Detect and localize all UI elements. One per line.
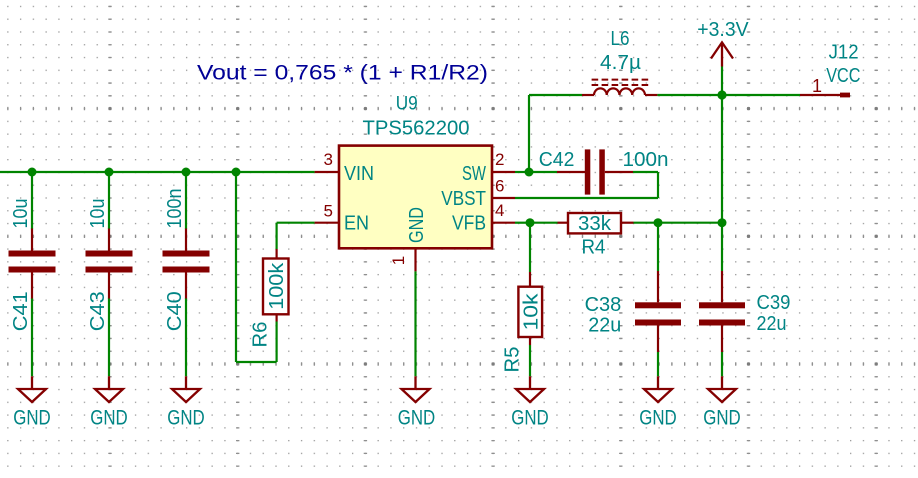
svg-text:R4: R4 — [582, 237, 606, 259]
wire C43 top — [108, 172, 110, 229]
svg-text:C42: C42 — [539, 149, 575, 171]
connector J12 pin 1 — [800, 93, 850, 98]
wire C40 bottom — [185, 298, 187, 376]
wire R5 top — [529, 223, 531, 272]
svg-text:GND: GND — [639, 407, 677, 430]
wire R6 bottom — [276, 322, 278, 363]
pin 4 VFB stub — [493, 222, 516, 224]
svg-text:4: 4 — [495, 201, 504, 220]
pin 2 SW stub — [493, 171, 516, 173]
svg-text:L6: L6 — [611, 28, 630, 50]
svg-text:100n: 100n — [623, 149, 669, 171]
ground symbol at C40 — [172, 376, 200, 402]
resistor R5 — [518, 272, 542, 345]
svg-text:Vout = 0,765 * (1 + R1/R2): Vout = 0,765 * (1 + R1/R2) — [197, 62, 488, 85]
svg-text:VIN: VIN — [344, 162, 374, 185]
junction +3.3V VFB node — [718, 218, 727, 227]
svg-text:22u: 22u — [588, 315, 621, 337]
junction on VIN rail at C41 — [28, 168, 37, 177]
wire C39 top — [721, 223, 723, 271]
pin 3 VIN stub — [315, 171, 339, 173]
svg-text:GND: GND — [167, 407, 205, 430]
svg-text:GND: GND — [405, 207, 428, 243]
junction on VIN rail at C43 — [105, 168, 114, 177]
R6 value label 100k — [266, 262, 288, 310]
junction on VIN rail at EN branch — [232, 168, 241, 177]
wire R5 bottom — [529, 345, 531, 376]
C40 value label 100n — [164, 189, 186, 229]
svg-text:C39: C39 — [757, 292, 791, 314]
pin 5 EN stub — [315, 222, 339, 224]
wire C38 bottom — [657, 352, 659, 376]
svg-text:1: 1 — [812, 76, 822, 96]
svg-text:GND: GND — [13, 407, 51, 430]
svg-text:EN: EN — [344, 212, 369, 235]
svg-text:U9: U9 — [396, 94, 418, 115]
op-amp U9 body TPS562200 — [339, 146, 492, 249]
wire SW top to L6 — [529, 94, 582, 96]
wire EN branch vertical — [235, 172, 237, 362]
inductor L6 — [582, 88, 657, 95]
capacitor C41 — [9, 229, 56, 299]
svg-text:C38: C38 — [585, 294, 622, 316]
resistor R4 — [558, 213, 634, 233]
svg-text:GND: GND — [398, 407, 436, 430]
ground symbol at C43 — [95, 376, 123, 402]
R5 value label 10k — [521, 292, 543, 330]
wire L6 to +3.3V junction — [657, 94, 722, 96]
ground symbol at U9 — [402, 376, 430, 402]
pin 1 GND stub — [414, 248, 416, 271]
wire VBST return — [515, 197, 658, 199]
svg-text:100k: 100k — [266, 262, 288, 310]
svg-text:22u: 22u — [757, 313, 787, 335]
pin number 1 — [389, 256, 408, 265]
capacitor C39 — [699, 271, 745, 352]
svg-text:2: 2 — [495, 150, 504, 169]
ground symbol at C38 — [644, 376, 672, 402]
svg-text:J12: J12 — [829, 41, 859, 63]
wire VIN rail — [0, 171, 315, 173]
svg-text:1: 1 — [389, 256, 408, 265]
svg-text:C40: C40 — [164, 291, 186, 331]
R5 reference label — [502, 347, 524, 373]
wire VFB junction to R4 — [530, 222, 558, 224]
capacitor C42 — [557, 149, 633, 194]
svg-text:33k: 33k — [578, 213, 612, 235]
svg-text:R5: R5 — [502, 347, 524, 373]
power symbol +3.3V — [711, 42, 733, 95]
wire R6 top — [276, 223, 278, 249]
capacitor C40 — [163, 229, 210, 299]
wire C41 top — [31, 172, 33, 229]
wire to EN pin — [277, 222, 315, 224]
pin name GND rotated — [405, 207, 428, 243]
C43 reference label — [87, 291, 109, 331]
svg-text:GND: GND — [703, 407, 741, 430]
wire U9 GND to ground — [414, 271, 416, 376]
svg-text:4.7µ: 4.7µ — [600, 52, 641, 74]
resistor R6 — [263, 249, 289, 322]
svg-text:R6: R6 — [250, 322, 272, 348]
junction on VIN rail at C40 — [182, 168, 191, 177]
wire to J12 — [722, 94, 800, 96]
pin 6 VBST stub — [493, 197, 516, 199]
wire C42 down — [657, 172, 659, 198]
junction C38 node — [654, 218, 663, 227]
wire VFB to junction — [515, 222, 530, 224]
svg-text:+3.3V: +3.3V — [697, 18, 749, 41]
svg-text:10k: 10k — [521, 292, 543, 330]
svg-text:5: 5 — [324, 201, 333, 220]
junction +3.3V node — [717, 90, 726, 99]
wire C38 top — [657, 223, 659, 271]
wire +3.3V vertical — [721, 95, 723, 223]
capacitor C43 — [86, 229, 133, 299]
svg-text:GND: GND — [511, 407, 549, 430]
svg-text:VFB: VFB — [452, 212, 486, 235]
svg-text:6: 6 — [495, 177, 504, 196]
wire C41 bottom — [31, 298, 33, 376]
junction VFB node — [526, 218, 535, 227]
wire SW to junction — [515, 171, 529, 173]
svg-text:10u: 10u — [87, 199, 109, 229]
svg-text:C41: C41 — [10, 291, 32, 331]
svg-text:VBST: VBST — [441, 187, 486, 210]
C41 value label 10u — [10, 199, 32, 229]
ground symbol at C39 — [708, 376, 736, 402]
capacitor C38 — [635, 271, 681, 352]
svg-text:TPS562200: TPS562200 — [363, 118, 470, 140]
wire R4 to C38 junction — [634, 222, 659, 224]
wire SW junction to C42 — [529, 171, 557, 173]
svg-text:C43: C43 — [87, 291, 109, 331]
wire C39 bottom — [721, 352, 723, 376]
svg-text:3: 3 — [324, 150, 333, 169]
R6 reference label — [250, 322, 272, 348]
C43 value label 10u — [87, 199, 109, 229]
C41 reference label — [10, 291, 32, 331]
wire SW up — [528, 95, 530, 172]
svg-text:VCC: VCC — [826, 65, 860, 87]
wire C38 junction to +3.3V branch — [658, 222, 722, 224]
wire C40 top — [185, 172, 187, 229]
svg-text:SW: SW — [462, 162, 486, 185]
L6 core dashed lines — [592, 80, 651, 85]
svg-text:GND: GND — [90, 407, 128, 430]
C40 reference label — [164, 291, 186, 331]
junction SW node — [525, 168, 534, 177]
svg-text:100n: 100n — [164, 189, 186, 229]
ground symbol at C41 — [18, 376, 46, 402]
ground symbol at R5 — [516, 376, 544, 402]
wire C42 right — [633, 171, 658, 173]
wire EN branch bottom horizontal — [236, 361, 277, 363]
svg-text:10u: 10u — [10, 199, 32, 229]
wire C43 bottom — [108, 298, 110, 376]
